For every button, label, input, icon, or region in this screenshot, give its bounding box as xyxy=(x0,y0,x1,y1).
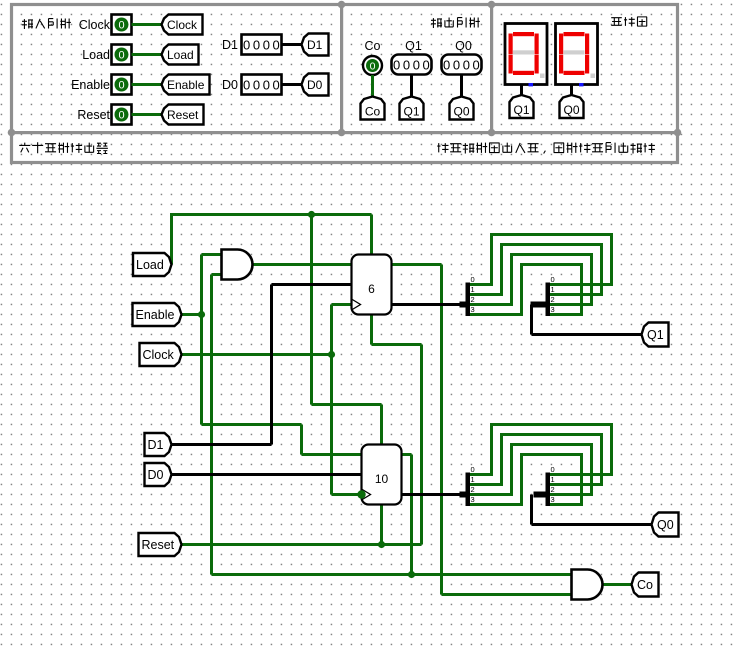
svg-text:1: 1 xyxy=(471,285,475,294)
svg-text:Reset: Reset xyxy=(77,108,110,122)
frame joint dot xyxy=(488,1,496,9)
svg-text:Q1: Q1 xyxy=(513,103,529,117)
wire clock vertical xyxy=(330,305,333,495)
note 请勿更改封装外观否则无法完成测试 xyxy=(437,143,655,154)
wire Q0 to tunnel xyxy=(460,75,463,98)
svg-text:Q0: Q0 xyxy=(657,518,674,532)
tunnel Load (panel) xyxy=(162,45,199,65)
panel title 输出引脚 xyxy=(431,18,480,28)
svg-text:D1: D1 xyxy=(307,38,323,52)
svg-text:3: 3 xyxy=(471,305,475,314)
splitter SP1 xyxy=(460,275,475,316)
and gate G2 (Co) xyxy=(572,570,603,600)
wire to tunnel Q1 xyxy=(532,333,642,336)
splitter SP4 xyxy=(534,465,555,506)
frame joint dot xyxy=(338,1,346,9)
tunnel Reset (panel) xyxy=(162,105,204,125)
wire U1 carry vertical xyxy=(440,265,443,595)
tunnel Reset xyxy=(139,533,182,556)
wire pin Load to tunnel xyxy=(132,53,162,56)
wire G2 out to tunnel Co xyxy=(602,583,632,586)
tunnel D0 xyxy=(145,463,172,486)
svg-text:6: 6 xyxy=(368,282,375,296)
wire U1 reset down xyxy=(370,315,373,345)
wire into counter U2 top (load) xyxy=(380,405,383,445)
frame joint dot xyxy=(8,129,16,137)
svg-text:D0: D0 xyxy=(222,78,238,92)
svg-text:Enable: Enable xyxy=(136,308,175,322)
wire Co pin to tunnel xyxy=(371,75,374,97)
svg-text:0: 0 xyxy=(471,465,475,474)
wire load riser xyxy=(170,215,173,265)
svg-text:1: 1 xyxy=(471,475,475,484)
svg-text:3: 3 xyxy=(551,305,555,314)
wire pin Reset to tunnel xyxy=(132,113,162,116)
svg-text:2: 2 xyxy=(471,485,475,494)
tunnel Enable (panel) xyxy=(162,75,210,95)
svg-text:0: 0 xyxy=(118,20,124,32)
wire to AND G2 input A xyxy=(212,573,572,576)
wire SP2 trunk down xyxy=(530,305,533,335)
svg-text:Load: Load xyxy=(136,258,164,272)
tunnel Q1 (panel) xyxy=(400,97,424,120)
counter U2 mod-10 xyxy=(362,445,402,505)
input pin Reset xyxy=(112,105,132,125)
panel title 输入引脚 xyxy=(22,19,71,29)
wire U2 Q out to splitter SP3 xyxy=(402,493,461,496)
wire U2 carry vertical xyxy=(410,455,413,575)
svg-text:Enable: Enable xyxy=(71,78,110,92)
wire reset horizontal upper xyxy=(372,343,422,346)
output pin Q1 (4-bit) xyxy=(392,55,433,75)
svg-text:Load: Load xyxy=(82,48,110,62)
tunnel Q1 out xyxy=(642,323,669,347)
wire D1 horizontal xyxy=(172,443,272,446)
frame horizontal divider xyxy=(10,131,679,134)
output pin Co xyxy=(363,56,382,75)
panel title 监控区 xyxy=(611,17,647,27)
tunnel D1 (panel) xyxy=(302,34,329,56)
tunnel Co (panel) xyxy=(361,97,385,120)
wire U2 reset down xyxy=(380,505,383,545)
wire enable to counter U2 input xyxy=(302,453,362,456)
svg-text:Q0: Q0 xyxy=(563,103,579,117)
frame vertical divider 2 xyxy=(490,3,493,133)
wire G1-B vertical xyxy=(210,275,213,575)
svg-text:Clock: Clock xyxy=(143,348,175,362)
wire U1 carry out xyxy=(392,263,442,266)
svg-text:0: 0 xyxy=(551,275,555,284)
junction enable net xyxy=(198,311,205,318)
svg-text:1: 1 xyxy=(551,285,555,294)
input pin Enable xyxy=(112,75,132,95)
svg-text:0: 0 xyxy=(551,465,555,474)
svg-text:Q0: Q0 xyxy=(453,105,469,119)
tunnel Clock xyxy=(140,343,182,366)
svg-text:D0: D0 xyxy=(148,468,164,482)
wire load down xyxy=(310,215,313,405)
7-segment display 1 xyxy=(505,24,547,87)
wire display2 to tunnel Q0 xyxy=(570,85,573,97)
frame joint dot xyxy=(488,129,496,137)
wire enable vertical xyxy=(200,255,203,425)
svg-text:Reset: Reset xyxy=(167,108,199,122)
wire enable to AND G1 input A xyxy=(202,253,222,256)
svg-text:0000: 0000 xyxy=(243,78,282,93)
title 六十进制计数器 xyxy=(19,142,108,153)
svg-text:Q1: Q1 xyxy=(403,105,419,119)
svg-text:D1: D1 xyxy=(222,38,238,52)
svg-text:3: 3 xyxy=(551,495,555,504)
wire pin Clock to tunnel xyxy=(132,23,162,26)
svg-text:Reset: Reset xyxy=(142,538,175,552)
wire clock to counter U2 clk xyxy=(332,493,362,496)
frame outer border xyxy=(12,5,678,163)
svg-text:3: 3 xyxy=(471,495,475,504)
tunnel Co out xyxy=(632,573,659,597)
svg-text:Enable: Enable xyxy=(167,78,205,92)
junction at U2 clk xyxy=(357,490,365,498)
wire U2 carry out xyxy=(402,453,412,456)
wire to AND G2 input B xyxy=(442,593,572,596)
tunnel Load xyxy=(133,253,172,276)
frame joint dot xyxy=(674,129,682,137)
wire load to counter U2 top xyxy=(312,403,382,406)
svg-text:Clock: Clock xyxy=(79,18,111,32)
wire clock to counter U1 clk xyxy=(332,303,352,306)
svg-text:Co: Co xyxy=(365,39,381,53)
tunnel Q0 (monitor) xyxy=(560,95,584,118)
svg-text:Load: Load xyxy=(167,48,194,62)
tunnel D1 xyxy=(145,433,172,456)
svg-text:2: 2 xyxy=(551,485,555,494)
splitter SP2 xyxy=(531,275,555,316)
svg-text:Co: Co xyxy=(365,105,381,119)
tunnel D0 (panel) xyxy=(302,74,329,96)
svg-text:D1: D1 xyxy=(148,438,164,452)
wire enable lower horizontal xyxy=(202,423,302,426)
and gate G1 xyxy=(222,250,253,280)
svg-text:0000: 0000 xyxy=(393,58,432,73)
7-segment display 2 xyxy=(556,24,598,87)
input pin Load xyxy=(112,45,132,65)
splitter nest wires lower (Q0 bits) xyxy=(470,423,614,506)
wire D1 to counter U1 D xyxy=(272,283,352,286)
input pin D0 (4-bit) xyxy=(242,75,283,95)
wire display1 to tunnel Q1 xyxy=(520,85,523,97)
tunnel Clock (panel) xyxy=(162,15,203,35)
tunnel Enable xyxy=(133,303,182,326)
wire Enable tunnel to junction xyxy=(182,313,202,316)
svg-text:2: 2 xyxy=(471,295,475,304)
svg-text:2: 2 xyxy=(551,295,555,304)
svg-text:Q1: Q1 xyxy=(647,328,664,342)
wire Reset tunnel across xyxy=(182,543,422,546)
junction load net xyxy=(308,211,315,218)
wire load top horizontal xyxy=(170,213,372,216)
wire U1 Q out to splitter SP1 xyxy=(392,303,461,306)
wire G1 out to counter U1 enable xyxy=(252,263,352,266)
splitter nest wires upper (Q1 bits) xyxy=(470,233,614,316)
svg-text:0: 0 xyxy=(118,110,124,122)
tunnel Q0 out xyxy=(652,513,679,537)
output pin Q0 (4-bit) xyxy=(442,55,483,75)
junction clock net xyxy=(328,351,335,358)
svg-text:Clock: Clock xyxy=(167,18,198,32)
wire D1 vertical xyxy=(270,285,273,445)
tunnel Q1 (monitor) xyxy=(510,95,534,118)
wire pin Enable to tunnel xyxy=(132,83,162,86)
svg-text:1: 1 xyxy=(551,475,555,484)
counter U1 mod-6 xyxy=(352,255,392,315)
wire D0 to tunnel xyxy=(282,83,302,86)
svg-text:0: 0 xyxy=(118,50,124,62)
input pin D1 (4-bit) xyxy=(242,35,283,55)
wire enable down xyxy=(300,425,303,455)
wire reset vertical xyxy=(420,345,423,545)
input pin Clock xyxy=(112,15,132,35)
svg-text:0: 0 xyxy=(471,275,475,284)
frame vertical divider 1 xyxy=(340,3,343,133)
frame joint dot xyxy=(338,129,346,137)
wire to tunnel Q0 xyxy=(532,523,652,526)
svg-text:0000: 0000 xyxy=(243,38,282,53)
svg-text:D0: D0 xyxy=(307,78,323,92)
svg-text:10: 10 xyxy=(375,472,389,486)
svg-text:Q0: Q0 xyxy=(455,39,472,53)
svg-text:Co: Co xyxy=(637,578,653,592)
svg-text:0: 0 xyxy=(370,61,376,73)
tunnel Q0 (panel) xyxy=(450,97,474,120)
junction reset net xyxy=(378,541,385,548)
wire SP4 trunk down xyxy=(530,495,533,525)
svg-text:Q1: Q1 xyxy=(405,39,422,53)
svg-text:0: 0 xyxy=(118,80,124,92)
wire Clock tunnel to junction xyxy=(182,353,332,356)
svg-text:0000: 0000 xyxy=(443,58,482,73)
wire into counter U1 top (load) xyxy=(370,215,373,255)
wire to AND G1 input B xyxy=(212,273,222,276)
junction carry net xyxy=(408,571,415,578)
wire D1 to tunnel xyxy=(282,43,302,46)
splitter SP3 xyxy=(460,465,475,506)
wire Q1 to tunnel xyxy=(410,75,413,98)
wire D0 to counter U2 D xyxy=(172,473,362,476)
